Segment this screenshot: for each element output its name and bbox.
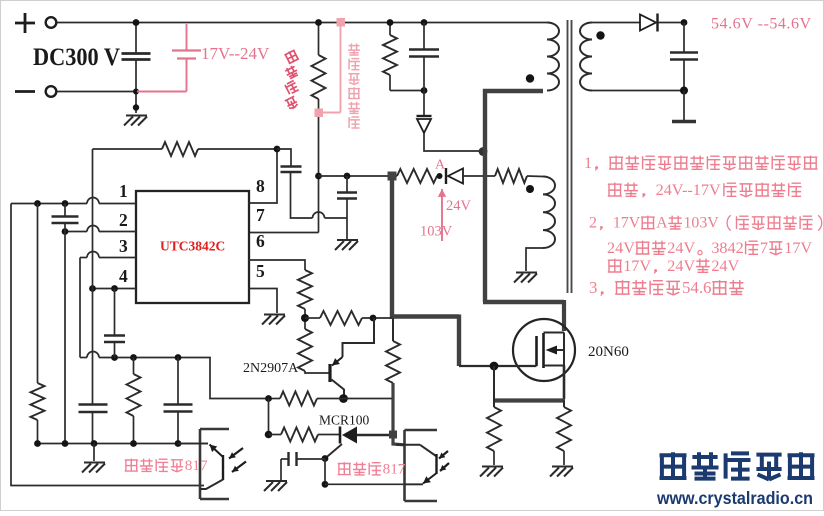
svg-text:817: 817 [185,457,208,474]
svg-text:24V: 24V [711,257,739,275]
svg-text:7: 7 [760,239,768,257]
svg-text:17V: 17V [623,257,651,275]
svg-text:17V: 17V [613,215,641,232]
svg-text:6: 6 [256,231,265,251]
svg-text:3: 3 [589,278,597,297]
svg-text:2N2907A: 2N2907A [243,361,299,376]
svg-text:A: A [656,215,668,232]
svg-text:3: 3 [119,236,128,256]
svg-text:817: 817 [383,461,406,478]
svg-text:MCR100: MCR100 [319,413,370,428]
svg-text:2: 2 [589,215,597,232]
svg-text:8: 8 [256,176,265,196]
svg-text:1: 1 [584,154,592,172]
svg-text:24V: 24V [667,257,695,275]
svg-text:17V--24V: 17V--24V [201,44,270,63]
svg-text:2: 2 [119,210,128,230]
svg-text:UTC3842C: UTC3842C [160,239,225,254]
svg-text:A: A [435,158,446,173]
svg-text:24V: 24V [667,239,695,257]
svg-text:5: 5 [256,261,265,281]
svg-text:24V: 24V [446,198,472,214]
svg-text:17V: 17V [784,239,812,257]
svg-text:www.crystalradio.cn: www.crystalradio.cn [656,488,813,508]
svg-text:20N60: 20N60 [588,344,629,360]
svg-text:24V: 24V [607,239,635,257]
svg-text:24V--17V: 24V--17V [656,181,721,199]
svg-text:DC300 V: DC300 V [33,44,120,71]
svg-text:103V: 103V [683,215,719,232]
svg-text:7: 7 [256,205,265,225]
svg-text:4: 4 [119,266,128,286]
svg-text:3842: 3842 [711,239,743,257]
svg-text:1: 1 [119,181,128,201]
svg-text:54.6: 54.6 [682,278,712,297]
svg-text:103V: 103V [420,224,453,240]
svg-text:54.6V --54.6V: 54.6V --54.6V [711,16,812,33]
